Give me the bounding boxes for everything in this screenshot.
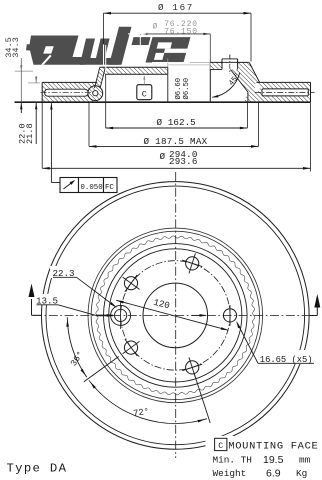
svg-text:Type DA: Type DA [7,462,68,476]
svg-text:C: C [218,442,223,451]
svg-text:Ø: Ø [153,23,158,32]
svg-text:Ø: Ø [160,151,166,162]
svg-text:76.150: 76.150 [164,28,198,37]
svg-text:Ø 162.5: Ø 162.5 [157,117,196,128]
svg-text:FC: FC [105,184,114,192]
svg-text:MOUNTING FACE: MOUNTING FACE [228,441,318,453]
svg-text:Ø6.50: Ø6.50 [182,78,191,100]
svg-text:Ø 187.5 MAX: Ø 187.5 MAX [144,136,208,147]
svg-text:19.5: 19.5 [263,454,284,466]
svg-text:293.6: 293.6 [169,156,198,167]
svg-text:34.3: 34.3 [11,37,21,58]
svg-text:C: C [142,89,147,99]
svg-text:mm: mm [299,455,311,466]
svg-text:Kg: Kg [296,468,307,479]
svg-text:0.050: 0.050 [81,184,103,192]
svg-text:Weight: Weight [213,468,247,479]
svg-text:21.8: 21.8 [25,123,35,144]
svg-text:6.9: 6.9 [266,468,281,480]
svg-text:Min. TH: Min. TH [213,455,252,466]
svg-text:Ø6.60: Ø6.60 [174,78,183,100]
svg-text:Ø 167: Ø 167 [158,2,194,13]
